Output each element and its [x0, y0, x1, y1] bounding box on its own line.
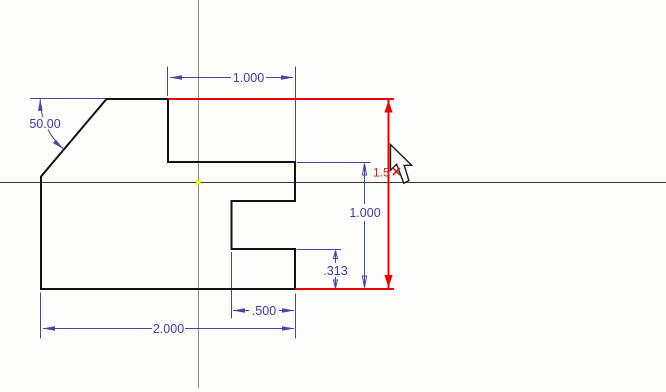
- dimension 50.00 angular: horizontal extension line: [30, 98, 107, 100]
- svg-text:.500: .500: [252, 304, 276, 318]
- dimension 2.000: dimension line segments: [43, 328, 152, 330]
- dimension 1.000 right vertical: dimension line segments: [364, 164, 366, 204]
- dimension 50.00 angular: arc: [40, 99, 63, 150]
- dimension .313: extension line from notch bottom edge: [297, 249, 342, 251]
- horizontal axis line (sketch X axis): [0, 182, 666, 184]
- red preview: bottom extension line along bottom edge: [295, 288, 394, 290]
- mouse cursor: [391, 145, 412, 184]
- sketch profile outline: [41, 99, 295, 289]
- dimension 1.000 top: left extension line: [167, 67, 169, 97]
- dimension 1.000 top: right extension line: [295, 67, 297, 162]
- dimension 2.000: left arrowhead: [43, 326, 56, 331]
- dimension 1.000 right vertical: bottom arrowhead: [362, 276, 366, 288]
- dimension .500: right arrowhead: [282, 308, 295, 313]
- svg-text:1.000: 1.000: [233, 71, 264, 85]
- svg-text:2.000: 2.000: [153, 322, 184, 336]
- red preview: vertical dimension line: [388, 100, 390, 288]
- red preview: bottom arrowhead: [384, 275, 392, 288]
- yellow origin point: [196, 180, 201, 185]
- dimension 1.000 right vertical: extension line: [297, 162, 371, 164]
- dimension .500: right extension line (shared with 2.000): [295, 294, 297, 339]
- svg-text:50.00: 50.00: [29, 117, 60, 131]
- dimension 2.000: right arrowhead: [282, 326, 295, 331]
- dimension 50.00 angular: top arrowhead: [38, 99, 43, 111]
- dimension 1.000 top: dimension line with text gap: [170, 77, 231, 79]
- vertical centerline (sketch Y axis): [198, 0, 200, 388]
- dimension 50.00 angular: bottom arrowhead: [53, 140, 63, 150]
- dimension .313: lower arrowhead and stem: [335, 277, 337, 287]
- red preview: top extension line along top edge: [169, 98, 395, 100]
- svg-text:1.5: 1.5: [373, 166, 390, 180]
- svg-text:.313: .313: [323, 264, 347, 278]
- dimension .500: left arrowhead: [233, 308, 246, 313]
- dimension .500: dimension line segments: [233, 310, 249, 312]
- dimension 1.000 top: right arrowhead: [281, 75, 294, 80]
- svg-text:1.000: 1.000: [349, 206, 380, 220]
- dimension 1.000 top: left arrowhead: [170, 75, 183, 80]
- dimension .500: left extension line: [231, 252, 233, 319]
- dimension 50.00 angular: text background: [29, 117, 61, 130]
- red x mark near cursor: [393, 168, 400, 175]
- dimension 2.000: left extension line: [40, 293, 42, 339]
- red preview: top arrowhead: [384, 101, 392, 113]
- dimension 1.000 right vertical: top arrowhead: [362, 164, 366, 176]
- dimension .313: upper arrowhead and stem: [335, 252, 337, 263]
